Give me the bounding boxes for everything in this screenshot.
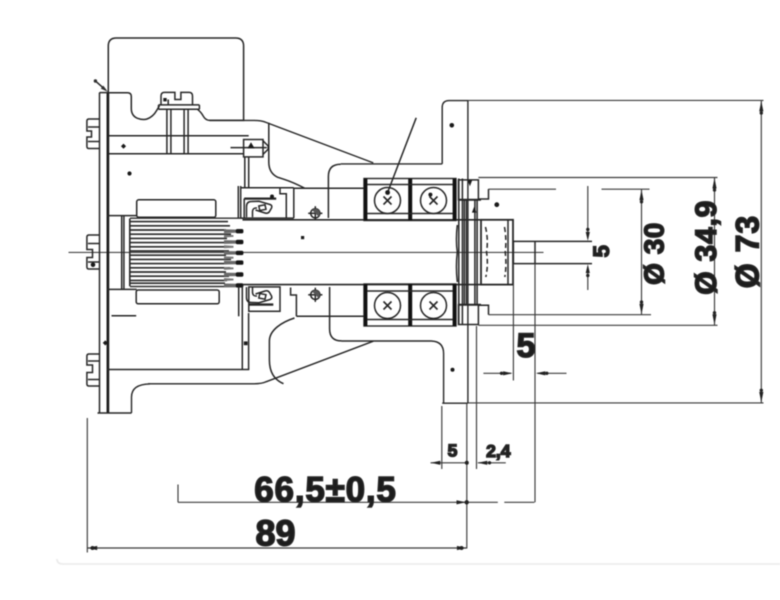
bearing block top	[364, 179, 456, 221]
tab T3 on plate	[87, 354, 100, 386]
flange plate bottom edge	[98, 412, 132, 414]
dot in cap region	[494, 202, 499, 207]
seal box top	[238, 186, 293, 218]
bolt lower column	[244, 157, 246, 188]
housing top line to flange	[341, 163, 443, 165]
cup hub	[478, 189, 513, 315]
dot on housing mid-left	[127, 171, 131, 175]
foot left	[132, 384, 151, 413]
leader to bearing	[388, 118, 417, 193]
stub shaft	[513, 241, 592, 263]
svg-text:Ø 73: Ø 73	[730, 215, 766, 288]
dot on shaft	[301, 236, 304, 239]
svg-text:5: 5	[448, 441, 458, 461]
leader arrow top-left	[94, 79, 108, 92]
dot on right flange top	[450, 123, 455, 128]
washer slinger	[456, 179, 481, 325]
centerline	[69, 251, 544, 253]
inner S-curve bottom	[269, 318, 294, 384]
arrow mark on washer mid	[472, 207, 477, 213]
dim 5 flange thickness	[431, 404, 469, 549]
flange plate right edge (thick)	[107, 93, 110, 414]
housing top profile with cove	[108, 93, 159, 120]
dim Ø73	[468, 100, 764, 403]
seal box bottom	[239, 286, 365, 369]
motor top block	[108, 38, 243, 120]
mounting bar	[108, 135, 248, 137]
pocket right wall + arc (top)	[328, 164, 340, 218]
bolt symbol top	[308, 206, 322, 220]
dim Ø34,9	[478, 178, 717, 326]
tab washer strip	[159, 105, 200, 109]
step below hub	[112, 315, 137, 317]
dot leader end on bearing	[385, 190, 390, 195]
dim 66,5±0,5	[178, 485, 534, 505]
faint page separator	[57, 559, 780, 564]
inner bottom line	[107, 369, 249, 371]
svg-text:Ø 34,9: Ø 34,9	[690, 200, 723, 295]
dim 5 stub length	[483, 264, 566, 503]
spline teeth tips	[224, 229, 243, 288]
castle tab	[161, 92, 193, 104]
tab T2 on plate	[87, 235, 100, 269]
hub rect bottom	[136, 290, 219, 304]
dim 2,4 washer	[477, 326, 506, 469]
dot on housing left	[121, 144, 126, 149]
svg-text:Ø 30: Ø 30	[639, 222, 670, 285]
dot on right flange bottom	[451, 368, 455, 372]
shaft edges	[243, 219, 482, 221]
flange plate top edge	[100, 92, 109, 94]
dot on bottom wall	[244, 341, 248, 345]
svg-text:5: 5	[589, 245, 614, 257]
housing profile right of castle	[198, 109, 210, 120]
dim 89	[87, 418, 467, 553]
hub rect top	[137, 200, 216, 218]
bolt symbol bottom	[308, 288, 322, 302]
dot on plate lower	[103, 340, 108, 345]
flange plate left edge	[99, 93, 101, 414]
housing bottom line to flange	[342, 341, 444, 403]
svg-text:5: 5	[517, 327, 536, 365]
right flange	[442, 101, 468, 404]
bolt at bar end	[231, 140, 269, 157]
dim 5 vertical (stub diameter)	[586, 186, 590, 290]
stud columns	[167, 109, 188, 154]
inner S-curve top	[269, 123, 305, 188]
castle tab inner marks	[167, 100, 169, 105]
seal pocket top line	[294, 187, 364, 189]
svg-text:2,4: 2,4	[486, 441, 511, 461]
bearing block bottom	[364, 284, 456, 326]
arrow mark on washer top	[468, 180, 473, 186]
dot on second bearing ball	[428, 193, 432, 197]
pocket wall bottom + arc	[330, 287, 342, 341]
svg-text:89: 89	[255, 513, 295, 554]
dim Ø30	[489, 189, 652, 315]
svg-text:66,5±0,5: 66,5±0,5	[254, 470, 396, 509]
spline band	[130, 218, 244, 287]
dot on plate center tab	[91, 263, 96, 268]
tab T1 on plate	[87, 119, 100, 149]
dot right of seal box	[270, 195, 274, 199]
bottom diagonal outer profile	[148, 341, 373, 384]
left boss verticals	[107, 216, 137, 290]
top diagonal outer profile	[210, 120, 373, 162]
